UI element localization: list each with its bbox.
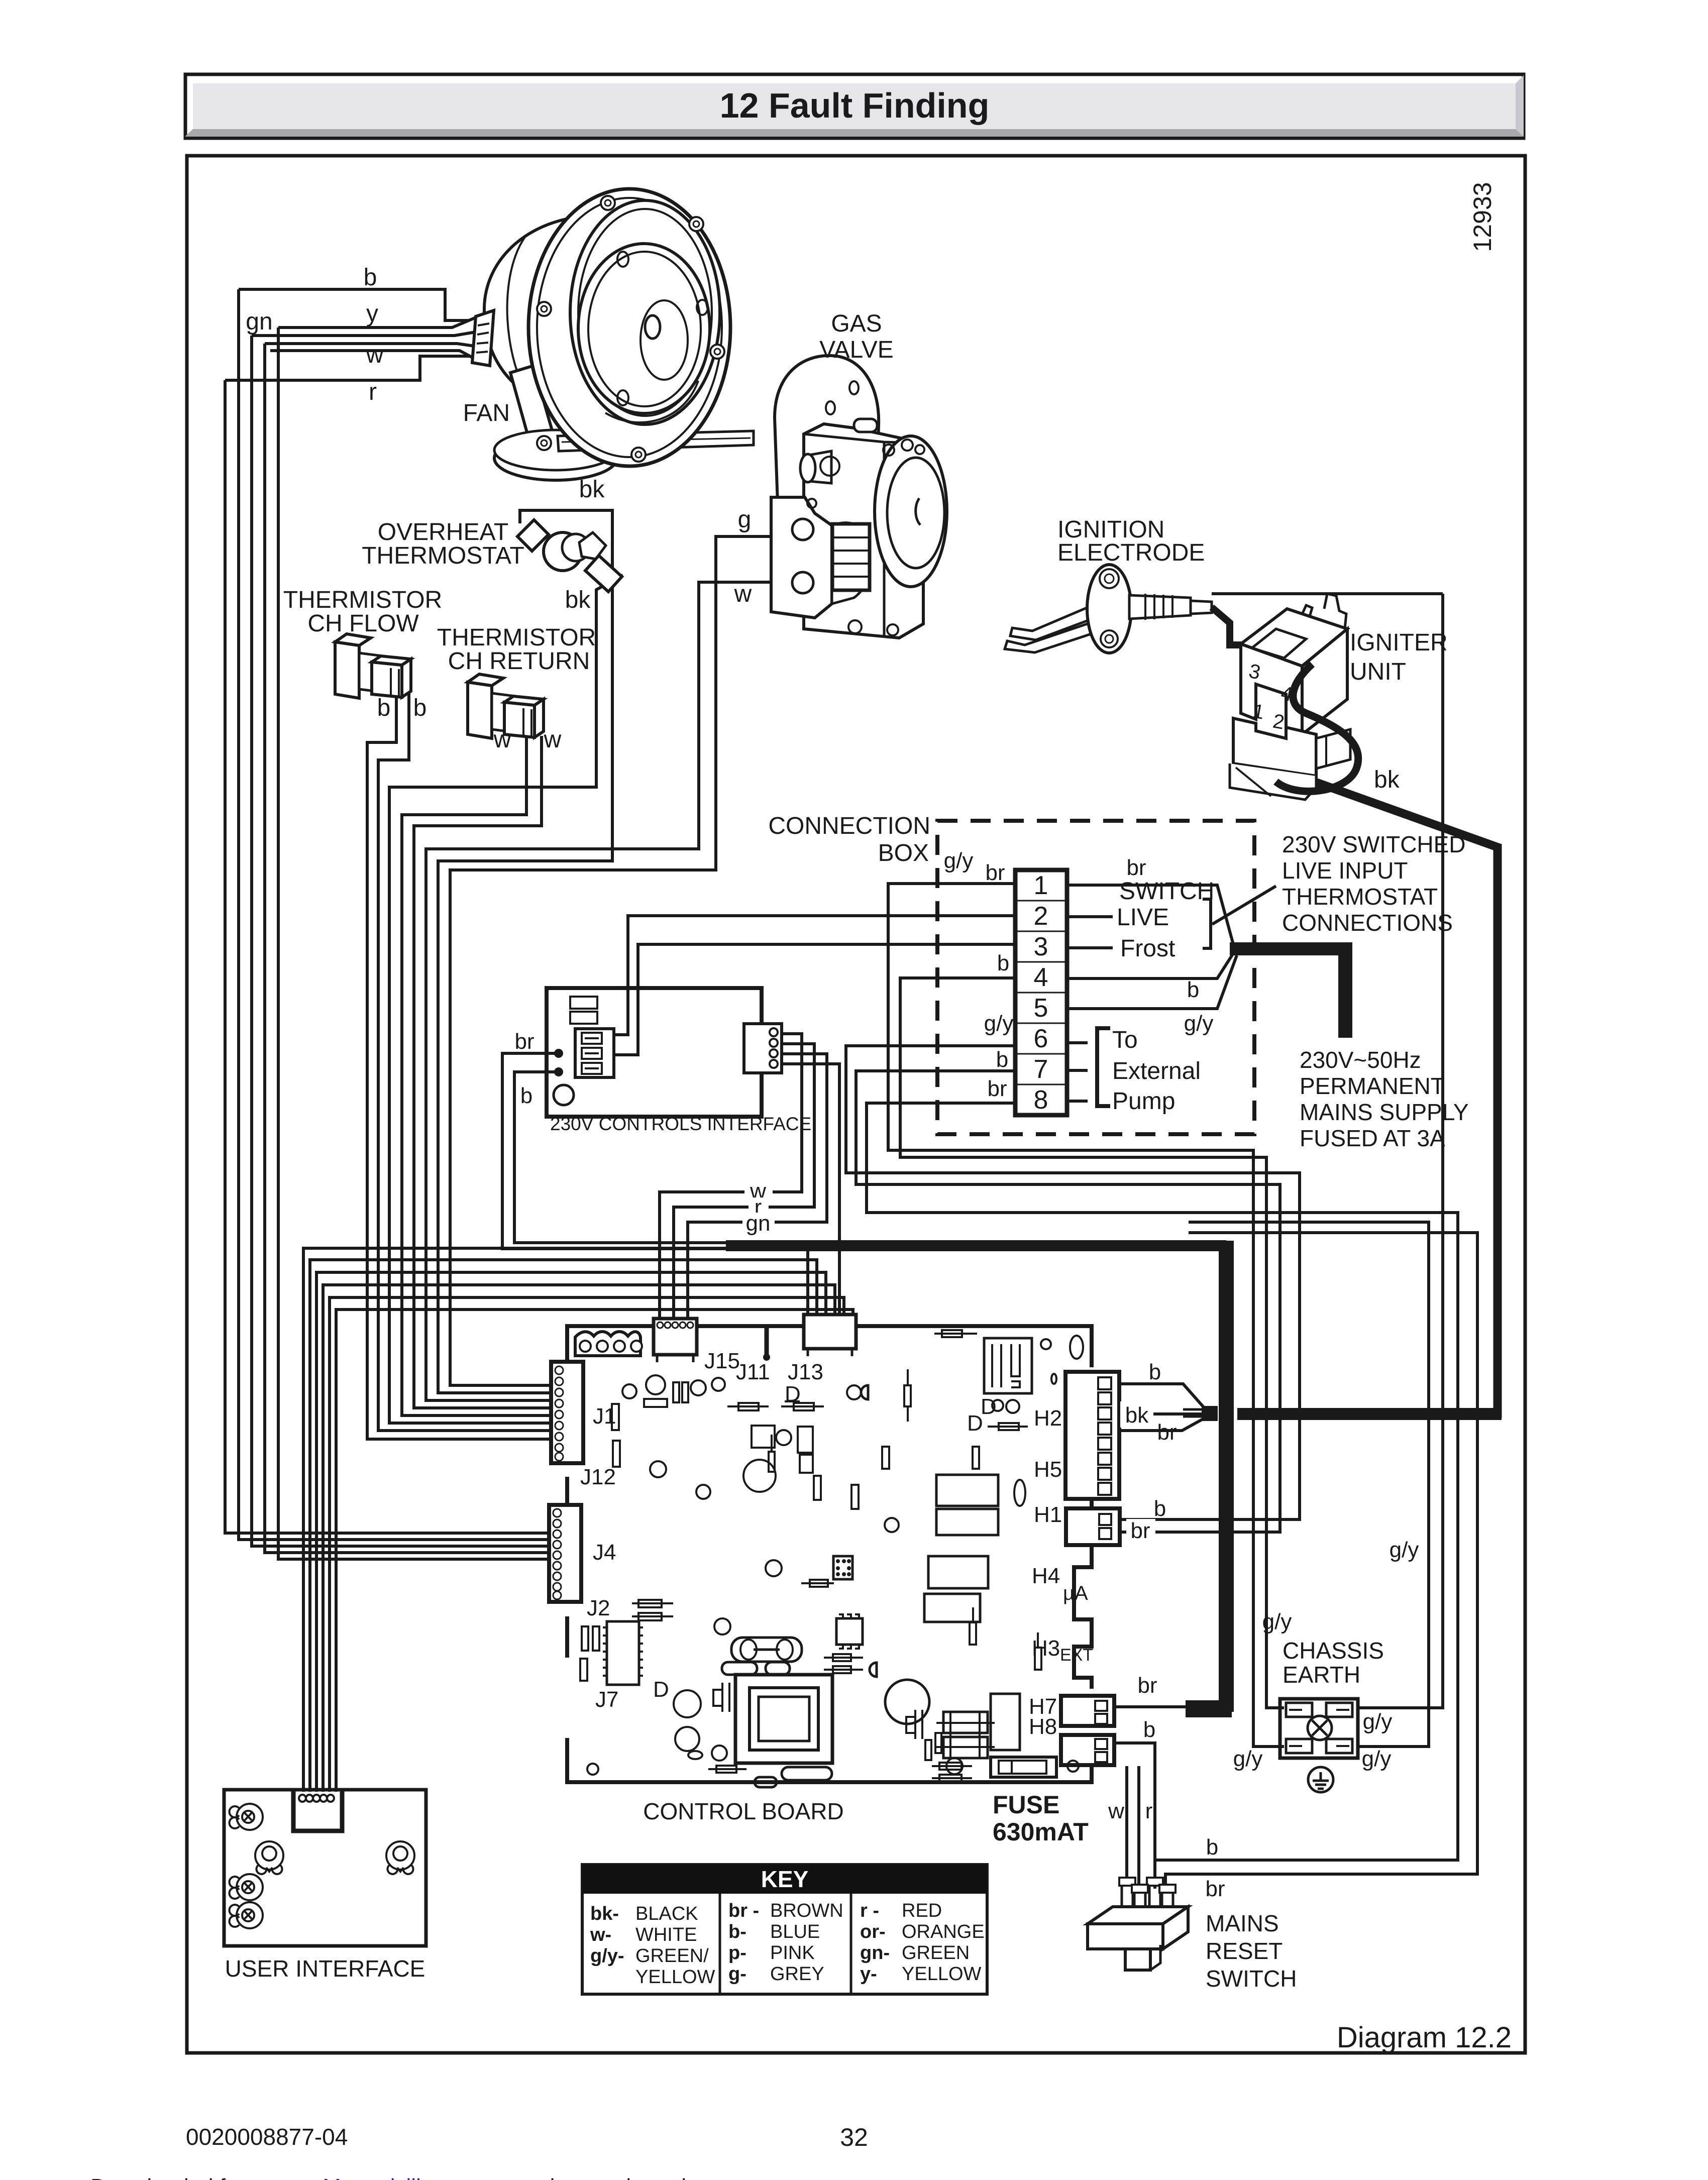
J13 connector	[804, 1315, 856, 1356]
wire connbox t8 left loop to switch b	[867, 1103, 1458, 1889]
caps mid	[752, 1426, 775, 1448]
svg-text:g/y: g/y	[1362, 1747, 1392, 1771]
wire connbox t1 left loop	[888, 884, 1284, 1747]
svg-text:J4: J4	[593, 1540, 616, 1565]
label bk H2	[1120, 1401, 1153, 1428]
fan hub small circle	[640, 300, 688, 380]
wire thermistor chret w1	[402, 733, 551, 1415]
svg-text:b: b	[520, 1083, 532, 1108]
svg-text:230V~50Hz: 230V~50Hz	[1300, 1047, 1421, 1073]
terminal strip dividers	[1015, 901, 1067, 1084]
gas valve top knob	[854, 419, 877, 432]
H1 connector	[1066, 1508, 1120, 1545]
small circles top left	[622, 1384, 636, 1398]
overheat thermostat drawing	[517, 520, 622, 592]
wire H2 bk	[1120, 1412, 1204, 1415]
svg-text:b: b	[997, 951, 1009, 975]
svg-text:g/y: g/y	[1363, 1709, 1393, 1734]
electrode prong upper	[1010, 607, 1092, 640]
svg-text:2: 2	[1034, 902, 1048, 931]
wire gas valve w	[426, 582, 838, 1400]
svg-text:J13: J13	[788, 1360, 823, 1384]
svg-text:MAINS: MAINS	[1206, 1910, 1279, 1936]
wire fan w	[270, 351, 478, 361]
wire H8 b	[1114, 1743, 1155, 1860]
igniter body top face	[1241, 609, 1347, 666]
J11 pin	[765, 1326, 769, 1356]
wire connbox t6 stub	[1067, 1041, 1088, 1044]
fan face ring	[570, 200, 720, 424]
electrode plate screw bottom	[1101, 630, 1118, 647]
wire fan y	[278, 316, 478, 328]
J1 connector	[551, 1362, 583, 1463]
wire interface b down	[514, 1072, 726, 1243]
svg-text:bk: bk	[1374, 767, 1400, 793]
svg-text:Diagram 12.2: Diagram 12.2	[1337, 2021, 1512, 2054]
svg-text:w: w	[493, 726, 511, 753]
fan bottom bracket bar	[558, 431, 754, 451]
gas valve left stub	[809, 451, 831, 483]
svg-text:230V SWITCHED: 230V SWITCHED	[1282, 831, 1466, 857]
svg-text:CH FLOW: CH FLOW	[307, 610, 419, 637]
fan face plate	[578, 244, 710, 413]
svg-text:H2: H2	[1034, 1406, 1062, 1431]
svg-text:g/y: g/y	[1184, 1011, 1214, 1036]
svg-text:w: w	[734, 581, 752, 607]
wire fan r	[225, 356, 469, 380]
vertical resistors scattered	[973, 1447, 979, 1469]
svg-text:w-: w-	[590, 1924, 611, 1945]
wire connbox t3 to interface	[614, 944, 1015, 1055]
ui pot small 1	[230, 1804, 263, 1830]
interface led rect 2	[570, 1012, 597, 1024]
svg-text:w: w	[544, 726, 562, 753]
wire ui bundle 3	[316, 1272, 826, 1792]
wire connbox t4 right to node	[1067, 953, 1233, 978]
gas valve drawing	[771, 356, 947, 638]
svg-text:J7: J7	[595, 1687, 618, 1712]
svg-text:Frost: Frost	[1120, 935, 1175, 962]
wire ui bundle 5	[330, 1297, 844, 1792]
interface terminal block	[575, 1029, 614, 1077]
svg-text:THERMISTOR: THERMISTOR	[437, 624, 596, 651]
fuse component	[991, 1757, 1056, 1777]
wire connbox t2 to interface	[614, 916, 1015, 1035]
svg-text:BOX: BOX	[878, 840, 929, 866]
svg-text:H4: H4	[1032, 1564, 1060, 1588]
ui pot small 2	[230, 1874, 263, 1900]
interface circle	[554, 1085, 574, 1105]
IC dip	[607, 1621, 639, 1685]
svg-text:br: br	[514, 1029, 534, 1054]
fan plate screws	[617, 252, 628, 267]
svg-text:PERMANENT: PERMANENT	[1300, 1073, 1445, 1099]
wire connbox t4 left loop	[900, 978, 1284, 1708]
svg-text:USER INTERFACE: USER INTERFACE	[225, 1955, 425, 1982]
svg-text:br: br	[1157, 1420, 1177, 1445]
big transformer square	[735, 1675, 832, 1763]
key table	[582, 1865, 987, 1994]
svg-text:µA: µA	[1063, 1582, 1088, 1604]
svg-text:WHITE: WHITE	[635, 1924, 697, 1945]
thick mains cable horizontal	[726, 1240, 1226, 1251]
wire switch br up	[1165, 1233, 1477, 1889]
svg-text:br: br	[1205, 1877, 1225, 1901]
svg-text:b: b	[413, 695, 427, 721]
svg-text:g/y: g/y	[1233, 1747, 1263, 1771]
thick connbox node vertical	[1338, 942, 1352, 1038]
wire fan vertical r	[225, 380, 551, 1533]
H7 connector	[1061, 1696, 1114, 1726]
electrode thin wire	[1212, 592, 1443, 595]
terminal strip body	[1015, 870, 1067, 1115]
svg-text:7: 7	[1034, 1055, 1048, 1084]
svg-text:g/y: g/y	[944, 848, 974, 873]
bottom resistor pair	[932, 1765, 972, 1767]
wire fan mid	[265, 344, 478, 347]
thermostat probe	[585, 556, 622, 592]
svg-text:H8: H8	[1029, 1714, 1057, 1739]
wire ui bundle 6	[336, 1310, 853, 1792]
ui pot small 3	[230, 1902, 263, 1928]
svg-text:gn-: gn-	[860, 1942, 890, 1964]
igniter S wire thick	[1276, 664, 1358, 791]
gas valve connector block	[832, 524, 870, 590]
igniter top prong 2	[1324, 594, 1346, 634]
svg-text:br: br	[987, 1076, 1007, 1101]
wire interface pin4 down	[782, 1064, 839, 1316]
svg-text:b: b	[1154, 1496, 1166, 1521]
svg-text:br: br	[1126, 855, 1146, 880]
svg-text:ORANGE: ORANGE	[902, 1921, 985, 1942]
fan scroll housing outline	[528, 189, 730, 466]
svg-text:J12: J12	[580, 1465, 616, 1489]
wire connbox t5 right to node	[1067, 955, 1237, 1009]
gas valve main body box	[804, 424, 923, 638]
svg-text:w: w	[366, 342, 384, 368]
svg-text:THERMISTOR: THERMISTOR	[283, 587, 442, 613]
svg-text:w: w	[1108, 1799, 1124, 1823]
svg-text:br: br	[985, 860, 1005, 885]
svg-text:630mAT: 630mAT	[993, 1818, 1089, 1846]
wire ui bundle 2	[310, 1260, 817, 1792]
igniter body right face	[1302, 629, 1347, 734]
gas valve mount bracket	[771, 497, 832, 618]
wire ui bundle 1 to J13	[303, 1248, 808, 1792]
D marks near H2	[992, 1400, 1003, 1411]
svg-text:H5: H5	[1034, 1457, 1062, 1482]
svg-text:J1: J1	[593, 1404, 616, 1429]
wire connbox t1 right to node	[1067, 885, 1233, 944]
svg-text:CONNECTION: CONNECTION	[768, 813, 930, 839]
switch live bracket	[1203, 899, 1211, 948]
wire H2 b	[1120, 1384, 1206, 1409]
svg-text:D: D	[967, 1411, 983, 1436]
wire connbox t6 left loop to H1 b	[846, 1046, 1300, 1519]
svg-text:BLACK: BLACK	[635, 1903, 698, 1924]
svg-text:J2: J2	[587, 1596, 610, 1620]
svg-text:VALVE: VALVE	[819, 337, 894, 363]
thick igniter bk vertical	[1493, 844, 1502, 1418]
wire chassis earth right upper g/y to electrode	[1356, 594, 1443, 1708]
J4 connector	[549, 1505, 581, 1602]
terminal numbers	[1034, 871, 1048, 1115]
D circles left of transformer	[674, 1690, 701, 1717]
igniter top prong 1	[1296, 605, 1312, 629]
svg-text:b: b	[377, 695, 391, 721]
electrode ceramic body	[1129, 595, 1191, 619]
chassis earth block	[1280, 1699, 1358, 1758]
wire connbox t3 stub Frost	[1067, 946, 1113, 949]
transformer rects	[936, 1475, 998, 1506]
user interface box	[224, 1790, 426, 1946]
svg-text:EXT: EXT	[1060, 1646, 1093, 1665]
wire fan vertical gn	[252, 336, 551, 1546]
thermostat hex	[579, 532, 606, 559]
transformer E core	[943, 1712, 988, 1733]
svg-text:4: 4	[1034, 963, 1048, 992]
J2 resistors	[632, 1602, 673, 1604]
svg-text:gn: gn	[746, 1211, 771, 1236]
ui pot big right	[386, 1841, 414, 1874]
svg-text:D: D	[653, 1677, 669, 1702]
interface right connector	[744, 1024, 782, 1073]
mid resistors with leads	[727, 1405, 769, 1407]
igniter lower base	[1230, 764, 1316, 800]
svg-text:bk: bk	[1125, 1403, 1149, 1428]
svg-text:p-: p-	[728, 1942, 746, 1964]
small dotted ic	[833, 1556, 852, 1579]
wire interface gn to J15	[688, 1054, 827, 1320]
gas valve dome hole 1	[849, 381, 859, 394]
svg-text:RED: RED	[902, 1900, 942, 1921]
wire fan vertical mid	[265, 344, 551, 1553]
gas valve screws	[883, 445, 894, 456]
svg-text:FAN: FAN	[463, 400, 510, 426]
wire interface br down	[502, 1053, 726, 1249]
fan motor rear housing	[484, 217, 583, 409]
H2 H5 connector block	[1065, 1372, 1119, 1499]
svg-text:g/y: g/y	[984, 1011, 1014, 1036]
svg-text:To: To	[1112, 1027, 1138, 1053]
vertical resistor near H2	[904, 1385, 911, 1406]
wire connbox t7 stub	[1067, 1069, 1088, 1072]
electrode plate screw top	[1100, 569, 1119, 588]
board 4pin edge plug	[575, 1332, 642, 1356]
crystal	[731, 1638, 802, 1662]
electrode terminal	[1191, 601, 1212, 614]
svg-text:PINK: PINK	[770, 1942, 815, 1964]
svg-text:32: 32	[840, 2123, 868, 2151]
wire overheat bk upper	[438, 510, 612, 1393]
thick connbox node bar	[1230, 942, 1351, 955]
svg-text:g/y: g/y	[1262, 1609, 1292, 1634]
svg-text:SWITCH: SWITCH	[1206, 1966, 1297, 1992]
svg-text:H1: H1	[1034, 1502, 1062, 1527]
D diode mark	[785, 1400, 800, 1402]
ui pot big left	[255, 1841, 283, 1874]
thermistor ch return drawing	[468, 674, 544, 738]
gas valve round motor cover	[832, 523, 870, 604]
thermistor ch flow drawing	[335, 634, 411, 698]
svg-text:b: b	[1143, 1717, 1155, 1742]
wire thermistor chflow b1	[367, 683, 551, 1439]
svg-text:0020008877-04: 0020008877-04	[186, 2124, 348, 2150]
svg-text:bk-: bk-	[590, 1903, 619, 1924]
wire ui bundle 4	[323, 1285, 835, 1792]
board internal components	[580, 1330, 1083, 1787]
gas valve drum	[875, 436, 947, 587]
fan hub hole	[645, 315, 660, 339]
svg-text:CHASSIS: CHASSIS	[1283, 1638, 1384, 1664]
svg-text:CONTROL BOARD: CONTROL BOARD	[643, 1798, 844, 1824]
interface terminal dots	[554, 1049, 563, 1058]
svg-text:FUSED AT 3A: FUSED AT 3A	[1300, 1125, 1445, 1151]
igniter pin numbers	[1247, 660, 1295, 734]
svg-text:bk: bk	[579, 476, 605, 503]
svg-text:H3: H3	[1032, 1636, 1060, 1661]
wire connbox t2 stub LIVE	[1067, 915, 1113, 918]
node square H2 junction	[1202, 1406, 1218, 1421]
svg-text:6: 6	[1034, 1024, 1048, 1053]
wire H2 br	[1120, 1418, 1206, 1431]
wire connbox t7 left loop to H1 br	[856, 1071, 1280, 1532]
svg-text:GREY: GREY	[770, 1964, 824, 1985]
svg-text:Downloaded from www.Manualslib: Downloaded from www.Manualslib.com manua…	[90, 2174, 711, 2180]
svg-text:RESET: RESET	[1206, 1938, 1283, 1964]
svg-text:br: br	[1137, 1673, 1157, 1698]
svg-text:UNIT: UNIT	[1350, 659, 1406, 685]
svg-text:g-: g-	[728, 1964, 746, 1985]
svg-text:b: b	[1187, 977, 1199, 1002]
earth symbol	[1308, 1767, 1333, 1792]
wire H8 w down to switch	[1125, 1766, 1128, 1886]
svg-text:OVERHEAT: OVERHEAT	[378, 519, 508, 546]
title bar	[185, 74, 1524, 138]
svg-text:12 Fault Finding: 12 Fault Finding	[720, 86, 990, 125]
wire interface w to J15	[660, 1034, 802, 1320]
main diagram border	[187, 156, 1525, 2053]
small dip8	[836, 1618, 863, 1645]
fan flange screw upper right	[689, 217, 703, 231]
svg-text:12933: 12933	[1468, 182, 1497, 252]
svg-text:5: 5	[1034, 994, 1048, 1023]
fan flange screw left mid	[537, 302, 551, 316]
wire interface r to J15	[674, 1044, 814, 1320]
node taper lines	[1183, 1408, 1202, 1411]
svg-text:External: External	[1112, 1058, 1201, 1084]
svg-text:8: 8	[1034, 1085, 1048, 1115]
relay top right	[984, 1338, 1032, 1393]
svg-text:LIVE: LIVE	[1117, 904, 1169, 931]
thermostat clip	[517, 520, 549, 551]
wire thermistor chflow b2	[378, 688, 551, 1431]
wire connbox t8 stub	[1067, 1100, 1088, 1103]
svg-text:THERMOSTAT: THERMOSTAT	[1282, 884, 1438, 910]
ignition electrode drawing	[1005, 565, 1212, 653]
to external pump bracket	[1097, 1028, 1110, 1106]
svg-text:FUSE: FUSE	[993, 1791, 1059, 1819]
big circle right	[885, 1680, 929, 1724]
wire thermistor chret w2	[414, 736, 551, 1408]
svg-text:D: D	[785, 1382, 801, 1406]
svg-text:gn: gn	[246, 308, 272, 335]
fan base ellipse	[494, 436, 617, 480]
igniter lower block	[1233, 718, 1316, 776]
svg-text:BROWN: BROWN	[770, 1900, 843, 1921]
electrode plate oval	[1087, 565, 1131, 653]
svg-text:3: 3	[1034, 932, 1048, 961]
svg-text:J15: J15	[704, 1349, 740, 1373]
wire chassis earth right lower g/y	[1189, 1222, 1429, 1747]
svg-text:GAS: GAS	[831, 310, 882, 337]
svg-text:g/y-: g/y-	[590, 1945, 624, 1967]
svg-text:CONNECTIONS: CONNECTIONS	[1282, 910, 1453, 936]
thermostat body circle	[544, 532, 582, 571]
igniter body notch	[1252, 629, 1306, 658]
fan flange screw lower left	[537, 436, 551, 450]
svg-text:THERMOSTAT: THERMOSTAT	[362, 542, 524, 569]
pointer line to thermostat text	[1212, 886, 1276, 924]
wire H7 br stub	[1114, 1705, 1188, 1708]
svg-text:J11: J11	[736, 1360, 770, 1384]
fan flange screw right	[710, 345, 724, 359]
svg-text:230V CONTROLS INTERFACE: 230V CONTROLS INTERFACE	[550, 1114, 811, 1134]
wire H8 r down to switch	[1137, 1766, 1140, 1891]
svg-text:MAINS SUPPLY: MAINS SUPPLY	[1300, 1099, 1469, 1125]
fan spiral arc	[605, 381, 698, 422]
svg-text:r -: r -	[860, 1900, 879, 1921]
svg-text:BLUE: BLUE	[770, 1921, 820, 1942]
svg-text:b: b	[996, 1047, 1008, 1072]
fan assembly drawing	[472, 189, 754, 480]
gas valve dome plate	[775, 356, 879, 503]
wire gas valve g	[450, 536, 838, 1385]
wire fan gn	[252, 332, 478, 336]
wire fan vertical y	[278, 328, 551, 1559]
igniter body front face	[1241, 644, 1302, 734]
igniter side tab	[1316, 729, 1350, 769]
svg-text:SWITCH: SWITCH	[1119, 878, 1214, 905]
wire overheat bk lower	[389, 575, 623, 1423]
thick mains cable vertical	[1219, 1241, 1234, 1712]
svg-text:KEY: KEY	[761, 1866, 809, 1892]
thick igniter bk diagonal	[1286, 772, 1500, 848]
J15 connector	[654, 1319, 697, 1362]
fan flange screw bottom	[631, 448, 646, 462]
svg-text:EARTH: EARTH	[1283, 1662, 1360, 1688]
electrode prong lower	[1005, 623, 1091, 652]
svg-text:ELECTRODE: ELECTRODE	[1057, 539, 1205, 566]
svg-text:b: b	[364, 264, 377, 291]
svg-text:1: 1	[1034, 871, 1048, 900]
wire fan vertical b	[239, 289, 551, 1540]
label br H1	[1126, 1519, 1155, 1542]
svg-text:b-: b-	[728, 1921, 746, 1942]
gas valve dome hole 2	[826, 401, 835, 414]
connection box dashed outline	[937, 821, 1254, 1134]
svg-text:GREEN/: GREEN/	[635, 1945, 709, 1967]
fan flange screw top	[601, 196, 615, 210]
svg-text:YELLOW: YELLOW	[902, 1964, 982, 1985]
control board outline	[567, 1326, 1092, 1782]
H8 connector	[1061, 1735, 1114, 1765]
svg-text:CH RETURN: CH RETURN	[448, 648, 590, 675]
wire fan b	[239, 289, 469, 320]
svg-text:y-: y-	[860, 1964, 877, 1985]
electrode bk thick wire to igniter	[1212, 607, 1242, 645]
interface led rect 1	[570, 997, 597, 1009]
